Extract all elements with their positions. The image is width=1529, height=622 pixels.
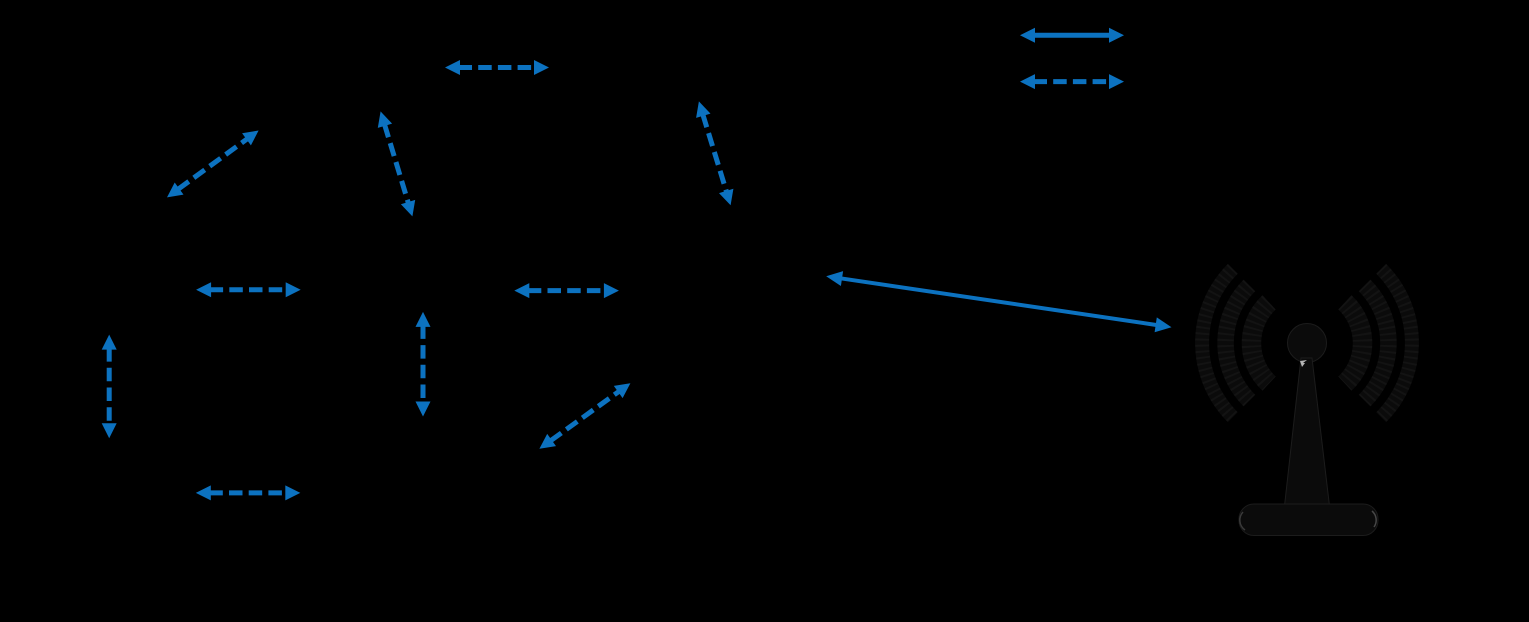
dashed link arrow lower diagonal [539, 383, 630, 449]
legend dashed two-way arrow [1020, 74, 1124, 89]
base station antenna tower icon [1202, 269, 1412, 536]
dashed link arrow bottom horizontal [196, 485, 300, 500]
dashed link arrow mid-left horizontal [196, 282, 301, 297]
dashed link arrow mid-center horizontal [514, 283, 619, 298]
dashed link arrow vertical far-left [102, 335, 117, 439]
legend solid two-way arrow [1020, 28, 1124, 43]
long solid arrow to base station [826, 271, 1171, 332]
dashed link arrow upper-left diagonal [167, 131, 259, 198]
dashed link arrow top-middle [445, 60, 549, 75]
dashed link arrow vertical center [416, 312, 431, 417]
dashed link arrow steep left [378, 111, 415, 216]
dashed link arrow steep middle [696, 101, 733, 205]
